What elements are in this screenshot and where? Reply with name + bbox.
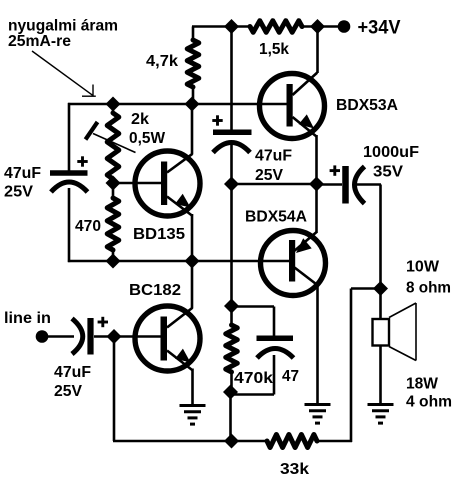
svg-text:4,7k: 4,7k xyxy=(146,53,178,70)
svg-text:470k: 470k xyxy=(234,370,273,387)
svg-text:BDX54A: BDX54A xyxy=(245,209,307,226)
svg-text:47uF: 47uF xyxy=(4,165,41,182)
svg-text:35V: 35V xyxy=(373,164,404,181)
svg-text:nyugalmi áram: nyugalmi áram xyxy=(8,18,118,35)
svg-text:47uF: 47uF xyxy=(54,364,91,381)
svg-text:1,5k: 1,5k xyxy=(259,41,289,58)
svg-text:4 ohm: 4 ohm xyxy=(406,394,452,411)
svg-text:18W: 18W xyxy=(406,376,438,393)
svg-text:+34V: +34V xyxy=(358,18,401,39)
svg-text:BC182: BC182 xyxy=(129,282,181,299)
svg-text:line in: line in xyxy=(4,310,51,327)
svg-text:25V: 25V xyxy=(54,383,82,400)
svg-text:33k: 33k xyxy=(280,461,309,478)
svg-text:BDX53A: BDX53A xyxy=(336,97,398,114)
svg-text:47: 47 xyxy=(282,368,299,385)
svg-text:1000uF: 1000uF xyxy=(363,144,419,161)
svg-text:2k: 2k xyxy=(131,111,149,128)
svg-text:47uF: 47uF xyxy=(255,148,292,165)
svg-text:8 ohm: 8 ohm xyxy=(406,280,451,297)
svg-text:25mA-re: 25mA-re xyxy=(8,33,71,50)
svg-text:BD135: BD135 xyxy=(133,226,185,243)
svg-text:470: 470 xyxy=(75,218,101,235)
svg-text:25V: 25V xyxy=(4,184,33,201)
svg-text:25V: 25V xyxy=(255,167,283,184)
svg-text:10W: 10W xyxy=(406,259,439,276)
svg-text:0,5W: 0,5W xyxy=(129,130,166,147)
